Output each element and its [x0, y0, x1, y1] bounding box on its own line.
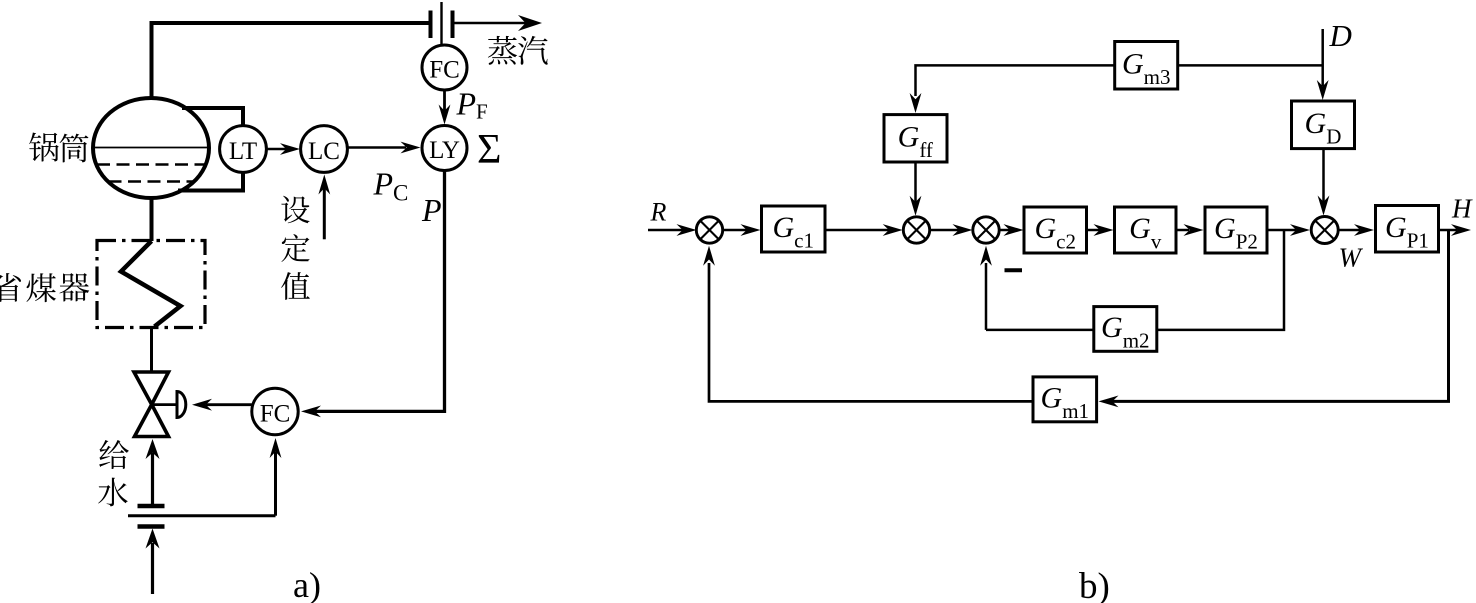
- wire: Gv to GP2 arrow: [1176, 224, 1204, 236]
- block Gff: [884, 115, 947, 162]
- label 省煤器 (economizer): [0, 273, 89, 302]
- wire: drum bottom pipe to economizer: [150, 196, 154, 241]
- wire: Gm1 output left and up into S1 arrow: [703, 246, 1033, 402]
- steam flow orifice element FE: [431, 2, 453, 46]
- wire: Gm3 output left then down to Gff arrow: [910, 65, 1115, 113]
- wire: steam outlet arrow: [453, 15, 543, 31]
- wire: H branch down to Gm1 line: [1099, 230, 1449, 407]
- wire: economizer to valve: [150, 327, 153, 372]
- wire: S3 feedback horizontal to Gm2: [986, 329, 1094, 332]
- wire: S1 to Gc1 arrow: [723, 224, 761, 236]
- summing junction S2: [903, 217, 929, 243]
- label P: [421, 192, 442, 228]
- svg-text:Σ: Σ: [477, 127, 501, 173]
- block GP1: [1376, 206, 1439, 253]
- label P_F: [456, 86, 488, 124]
- boiler drum 锅筒: [93, 98, 209, 198]
- wire: valve stem to actuator: [152, 403, 177, 406]
- svg-text:a): a): [293, 565, 321, 603]
- wire: R input arrow: [648, 224, 697, 236]
- wire: D branch left through Gm3: [1178, 64, 1323, 67]
- wire: Gc2 to Gv arrow: [1087, 224, 1114, 236]
- wire: feedwater supply arrow: [146, 529, 160, 595]
- wire: LC to LY arrow: [348, 142, 421, 154]
- wire: S3 to Gc2 arrow: [999, 224, 1023, 236]
- svg-text:b): b): [1079, 566, 1110, 603]
- economizer coil zigzag: [121, 241, 181, 327]
- summing junction S3: [973, 217, 999, 243]
- svg-text:W: W: [1339, 243, 1364, 273]
- summing relay LY: [422, 126, 467, 171]
- svg-text:LT: LT: [229, 138, 257, 165]
- svg-text:LC: LC: [308, 138, 340, 165]
- wire: LT to LC arrow: [267, 143, 301, 155]
- feedwater flow orifice element: [128, 506, 276, 527]
- block Gc1: [762, 206, 826, 253]
- label 锅筒 (drum): [29, 132, 88, 162]
- svg-text:PC: PC: [373, 166, 409, 206]
- control valve body: [134, 372, 169, 437]
- wire: branch after GP2 down to Gm2: [1157, 230, 1284, 330]
- block Gc2: [1024, 207, 1087, 254]
- block Gm2: [1094, 307, 1157, 353]
- economizer box (dash-dot) 省煤器: [97, 241, 205, 328]
- label 给水 (feedwater): [98, 440, 129, 506]
- wire: steam pipe from drum top to orifice: [152, 23, 430, 100]
- label sigma: [477, 127, 501, 173]
- flow controller FC (steam): [422, 45, 467, 90]
- wire: setpoint arrow into LC: [318, 175, 330, 240]
- wire: S4 to GP1 arrow: [1338, 224, 1374, 236]
- svg-text:LY: LY: [429, 137, 460, 164]
- wire: D input down to GD arrow: [1317, 29, 1329, 100]
- svg-text:FC: FC: [260, 401, 291, 428]
- wire: level tap bracket from drum to LT: [178, 108, 243, 191]
- wire: FC to LY arrow: [439, 91, 451, 125]
- flow controller FC (feedwater): [252, 388, 298, 434]
- block Gm1: [1033, 377, 1097, 423]
- level controller LC: [301, 126, 348, 173]
- label 蒸汽 (steam): [488, 36, 548, 65]
- block Gm3: [1115, 42, 1178, 90]
- level transmitter LT: [220, 126, 267, 173]
- label W: [1339, 243, 1364, 273]
- wire: H output arrow: [1439, 224, 1472, 236]
- svg-text:P: P: [421, 192, 442, 228]
- svg-text:R: R: [650, 198, 667, 227]
- label 设定值 (setpoint): [281, 196, 310, 300]
- wire: Gc1 to S2 arrow: [825, 224, 903, 236]
- label b): [1079, 566, 1110, 603]
- wire: feedwater arrow into valve: [146, 439, 160, 505]
- label H: [1451, 194, 1473, 224]
- wire: LY output down and left to FC: [301, 171, 445, 418]
- svg-text:FC: FC: [429, 57, 460, 84]
- label minus sign: [1005, 268, 1023, 272]
- label P_C: [373, 166, 409, 206]
- block GP2: [1205, 207, 1267, 254]
- label a): [293, 565, 321, 603]
- summing junction S1: [696, 217, 722, 243]
- wire: Gff to S2 arrow: [910, 162, 922, 216]
- wire: S2 to S3 arrow: [930, 224, 973, 236]
- wire: FC to valve actuator arrow: [192, 399, 252, 411]
- wire: orifice tap up to FC arrow: [270, 438, 282, 516]
- svg-text:D: D: [1329, 18, 1352, 53]
- block Gv: [1115, 207, 1177, 254]
- block GD: [1292, 101, 1355, 149]
- wire: GD to S4 arrow: [1318, 149, 1330, 216]
- svg-text:H: H: [1451, 194, 1473, 224]
- label R: [650, 198, 667, 227]
- wire: Gm2 feedback up into S3 arrow: [980, 246, 992, 330]
- svg-text:PF: PF: [456, 86, 488, 124]
- label D: [1329, 18, 1352, 53]
- valve actuator diaphragm: [177, 392, 186, 418]
- summing junction S4: [1311, 217, 1338, 244]
- wire: GP2 to S4 arrow with branch node: [1267, 224, 1310, 236]
